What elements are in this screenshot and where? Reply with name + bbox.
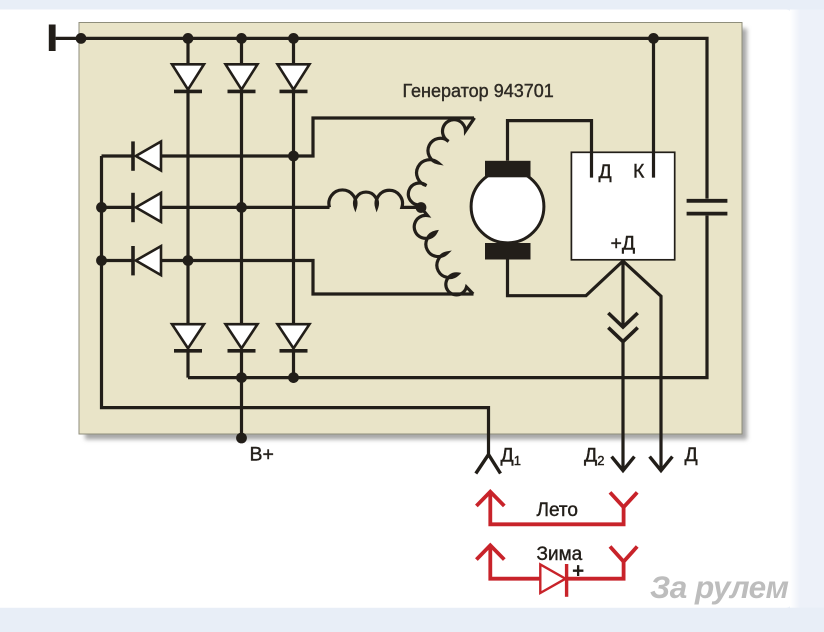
terminal fork D1 xyxy=(476,455,501,474)
wire additional diode row 3 xyxy=(102,261,474,295)
node row2 phase B xyxy=(236,202,247,213)
node top rail bus B xyxy=(236,33,247,44)
node top rail bus A xyxy=(183,33,194,44)
svg-text:Зима: Зима xyxy=(537,544,583,565)
connector chevron symbol xyxy=(608,313,637,342)
ground xyxy=(49,25,56,52)
generator panel xyxy=(79,23,742,435)
svg-text:К: К xyxy=(633,161,645,183)
svg-text:Генератор 943701: Генератор 943701 xyxy=(403,81,554,101)
node top rail at panel edge xyxy=(76,33,87,44)
arrow terminal Д xyxy=(650,457,673,471)
diode VD5 bottom bridge xyxy=(226,324,258,351)
wire pin К to minus rail xyxy=(652,38,655,177)
stator winding phase 2 coil xyxy=(329,190,416,207)
red winter link wire right xyxy=(567,562,624,579)
rotor G1 xyxy=(471,161,544,260)
wire top rail (minus bus) xyxy=(81,38,707,198)
svg-text:В+: В+ xyxy=(250,444,274,466)
wire +Д node to connector xyxy=(621,260,624,327)
wire phase bus B vertical xyxy=(240,38,243,377)
wire additional diode row 1 xyxy=(102,118,475,156)
diode VD10 winter red xyxy=(540,564,566,597)
diode VD9 additional row 3 xyxy=(133,246,161,275)
node left bus row2 xyxy=(96,202,107,213)
node top rail К tap xyxy=(648,33,659,44)
wire additional diode row 2 xyxy=(102,206,330,209)
node top rail bus C xyxy=(288,33,299,44)
wire phase bus A vertical xyxy=(186,38,189,377)
node terminal B+ xyxy=(236,433,247,444)
node left bus row3 xyxy=(96,255,107,266)
red winter link fork xyxy=(610,547,637,562)
svg-text:Лето: Лето xyxy=(537,500,578,521)
diode VD2 top bridge xyxy=(226,64,258,91)
wire rotor top brush to pin Д xyxy=(508,121,592,178)
node row1 phase C xyxy=(288,151,299,162)
node plus rail bus B xyxy=(236,372,247,383)
capacitor C1 xyxy=(687,201,728,214)
node row3 phase A xyxy=(183,255,194,266)
diode VD3 top bridge xyxy=(278,64,310,91)
diode VD8 additional row 2 xyxy=(133,193,161,222)
red winter link wire left xyxy=(490,546,540,579)
generator panel shadow xyxy=(85,29,747,440)
red summer link arrow xyxy=(476,492,504,506)
svg-text:Д: Д xyxy=(599,161,612,183)
red summer link wire xyxy=(490,492,623,524)
arrow terminal Д2 xyxy=(612,457,635,471)
svg-text:Д: Д xyxy=(685,444,698,466)
red summer link fork xyxy=(610,492,637,507)
red winter link arrow xyxy=(476,545,504,559)
stator winding phase 3 coil xyxy=(414,208,473,295)
node stator star point xyxy=(416,202,427,213)
stator winding phase 1 coil xyxy=(408,118,474,205)
node plus rail bus C xyxy=(288,372,299,383)
wire ground lead xyxy=(56,37,81,40)
svg-text:За рулем: За рулем xyxy=(650,569,789,605)
wire B+ lead xyxy=(240,378,243,438)
svg-text:+Д: +Д xyxy=(611,233,636,255)
wire phase bus C vertical xyxy=(292,38,295,377)
wire +Д node to terminal Д xyxy=(623,261,661,470)
wire left bus to terminal D1 xyxy=(102,156,489,455)
diode VD4 bottom bridge xyxy=(172,324,204,351)
diode VD1 top bridge xyxy=(172,64,204,91)
wire rotor bottom brush to +Д node xyxy=(508,260,624,296)
diode VD6 bottom bridge xyxy=(278,324,310,351)
regulator box U1 xyxy=(571,152,674,259)
wire connector to terminal Д2 xyxy=(621,342,624,470)
wire plus rail bottom xyxy=(188,216,707,378)
diode VD7 additional row 1 xyxy=(133,141,161,170)
